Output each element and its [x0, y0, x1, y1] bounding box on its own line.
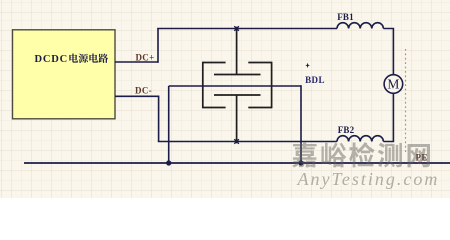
feedthrough capacitor C2 bottom pin	[236, 95, 238, 142]
net label DC+	[135, 53, 154, 63]
svg-text:DC-: DC-	[135, 86, 152, 96]
feedthrough capacitor shield top plates (split)	[203, 62, 272, 64]
wire shield mid tap	[169, 85, 301, 87]
junction at top rail / capacitor pin	[234, 26, 239, 31]
junction dot left on PE	[166, 160, 171, 165]
sheet symbol: DCDC power supply box	[13, 30, 116, 119]
dotted fold line	[405, 49, 407, 152]
net label BDL	[305, 75, 325, 85]
wire bottom rail	[158, 141, 337, 143]
motor M1	[384, 75, 403, 94]
wire FB1 to motor	[383, 29, 393, 76]
feedthrough capacitor shield bottom plates (split)	[203, 107, 272, 109]
wire DC- vertical drop	[158, 96, 160, 142]
feedthrough capacitor C2 bottom live plate	[214, 94, 261, 96]
svg-text:AnyTesting.com: AnyTesting.com	[297, 169, 440, 189]
junction at bottom rail / capacitor pin	[234, 139, 239, 144]
svg-text:FB1: FB1	[337, 12, 354, 22]
svg-text:FB2: FB2	[338, 125, 355, 135]
net label PE	[416, 152, 428, 162]
ferrite bead FB2	[337, 136, 383, 142]
label FB1	[337, 12, 354, 22]
wire DC- horizontal from box	[115, 95, 159, 97]
wire DC+ horizontal from box	[115, 61, 158, 63]
junction dot right on PE	[298, 160, 303, 165]
feedthrough capacitor C1 top pin	[236, 29, 238, 75]
wire motor to bottom corner	[383, 93, 393, 142]
watermark CJK 嘉峪检测网	[292, 142, 430, 167]
star marker	[305, 63, 310, 68]
svg-text:BDL: BDL	[305, 75, 325, 85]
wire PE rail	[24, 162, 450, 164]
wire DC+ vertical riser	[157, 29, 159, 63]
feedthrough capacitor shield left side	[202, 62, 204, 109]
wire top rail	[157, 28, 337, 30]
ferrite bead FB1	[337, 23, 383, 29]
feedthrough capacitor C1 top live plate	[214, 74, 261, 76]
watermark AnyTesting.com	[297, 169, 440, 189]
wire right earth drop	[300, 85, 302, 163]
wire left earth drop	[168, 86, 170, 163]
svg-text:DCDC: DCDC	[35, 54, 69, 65]
feedthrough capacitor shield right side	[271, 62, 273, 109]
svg-text:M: M	[387, 77, 399, 92]
label: DCDC电源电路	[35, 54, 109, 66]
label FB2	[338, 125, 355, 135]
net label DC-	[135, 86, 152, 96]
svg-text:DC+: DC+	[135, 53, 154, 63]
